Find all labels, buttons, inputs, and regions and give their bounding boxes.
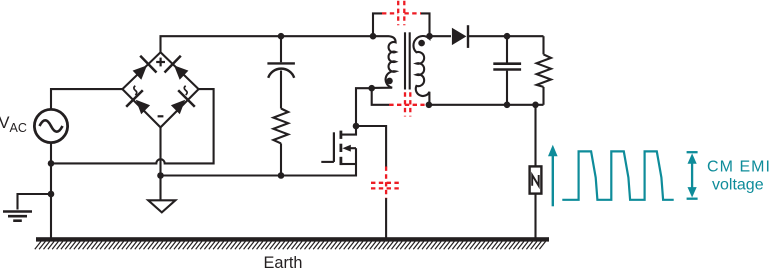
- bridge ~ mark right: [184, 86, 187, 95]
- wire stub secondary top to top parasitic cap: [421, 13, 430, 36]
- output diode D5: [452, 25, 468, 48]
- bridge diode D3 (bottom-left): [126, 90, 150, 114]
- parasitic capacitance C-par interwinding (red dashed): [389, 92, 424, 116]
- wire secondary top to output diode: [430, 35, 452, 37]
- MOSFET Q1 source lead: [342, 163, 356, 165]
- wire drain node to parasitic cap: [356, 126, 386, 167]
- svg-text:CM EMI: CM EMI: [707, 159, 770, 176]
- transformer T1 secondary polarity dot: [418, 40, 425, 47]
- wire primary bottom to interwinding cap: [372, 88, 390, 105]
- MOSFET Q1 right leg to source rail: [355, 148, 357, 176]
- AC source VAC: [34, 109, 67, 142]
- wire output cap top lead: [506, 36, 508, 62]
- impedance Z (LISN): [530, 166, 542, 193]
- signal ground (earth bars): [3, 212, 32, 221]
- wire bridge - to DC minus rail (through hop): [159, 127, 161, 200]
- MOSFET Q1 body lead: [351, 147, 357, 149]
- bridge diode D4 (bottom-right): [171, 90, 195, 114]
- wire secondary bottom rail: [429, 104, 544, 106]
- wire load resistor bottom lead: [542, 87, 544, 105]
- wire resistor to DC minus rail: [280, 143, 282, 175]
- wire AC line to bridge AC2 with crossover hop: [51, 89, 214, 163]
- parasitic capacitance C-par primary-secondary top (red dashed): [382, 1, 421, 25]
- MOSFET Q1 body arrow: [342, 145, 350, 152]
- wire VAC bottom to earth plane: [50, 143, 52, 240]
- wire parasitic cap to earth plane: [385, 198, 387, 239]
- load resistor R2: [537, 54, 551, 87]
- wire stub primary top to top parasitic cap: [373, 13, 382, 36]
- transformer T1 secondary winding: [413, 36, 429, 105]
- transformer T1 primary polarity dot: [386, 78, 393, 85]
- bridge diode D2 (top-right): [165, 56, 189, 80]
- transformer T1 primary winding: [372, 36, 396, 88]
- svg-text:Earth: Earth: [264, 254, 303, 269]
- wire load resistor top lead: [542, 36, 544, 54]
- parasitic capacitance C-par drain-earth (red dashed): [371, 167, 401, 199]
- wire DC minus rail: [161, 174, 357, 176]
- wire output cap bottom lead: [506, 71, 508, 105]
- wire primary bottom to drain node: [356, 88, 372, 126]
- transformer T1 core: [405, 32, 410, 89]
- resistor R1 (bleeder): [273, 109, 288, 144]
- wire Z to earth plane: [534, 194, 536, 240]
- amplitude double arrow: [687, 152, 698, 199]
- wire diode to output corner: [468, 35, 544, 37]
- wire bulk cap branch top lead: [280, 36, 282, 62]
- label CM EMI voltage: [707, 159, 770, 194]
- output capacitor C2: [493, 64, 521, 70]
- svg-text:VAC: VAC: [0, 114, 27, 135]
- bridge ~ mark left: [134, 86, 137, 95]
- earth plane: [35, 237, 549, 249]
- bridge - mark: [158, 115, 164, 117]
- CM EMI waveform: [562, 151, 673, 199]
- MOSFET Q1 drain lead: [342, 126, 356, 135]
- MOSFET Q1 channel segments: [339, 131, 342, 166]
- bridge diode D1 (top-left): [133, 56, 157, 80]
- wire bulk cap to resistor: [280, 71, 282, 109]
- bridge rectifier diamond: [122, 52, 198, 127]
- wire bridge + output to top rail: [161, 36, 374, 52]
- chassis ground: [148, 200, 175, 212]
- MOSFET Q1 gate lead: [321, 161, 334, 163]
- wire Z branch down: [534, 105, 536, 167]
- svg-text:voltage: voltage: [712, 177, 764, 194]
- MOSFET Q1 gate bar: [333, 132, 335, 162]
- bridge + mark: [156, 58, 165, 67]
- bulk capacitor C1: [267, 63, 295, 77]
- wire to signal earth: [18, 194, 52, 210]
- wire VAC top to bridge AC1: [51, 89, 122, 110]
- CM EMI rising arrow: [548, 145, 558, 207]
